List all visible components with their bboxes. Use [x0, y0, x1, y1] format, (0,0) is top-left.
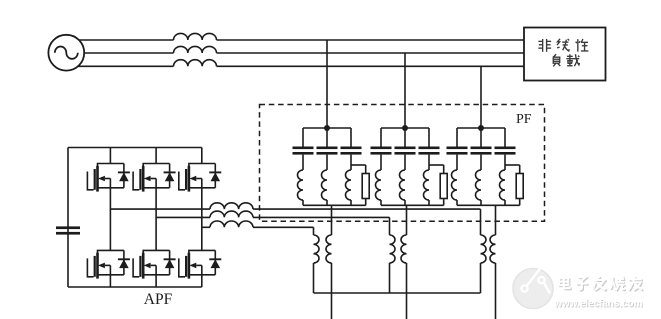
wire branch 1 L13 to bottom bus	[350, 200, 352, 205]
transistor Q2	[133, 164, 170, 192]
capacitor C33	[495, 147, 516, 155]
node branch 2 junction	[402, 125, 408, 131]
node branch 1 junction	[324, 125, 330, 131]
transformer T2 primary winding	[390, 235, 396, 263]
wire leg 2 lower source	[155, 275, 157, 287]
wire phase A (inductor to load)	[217, 39, 525, 41]
label char 线	[557, 39, 569, 51]
wire branch 1 L12 to bottom bus	[326, 200, 328, 205]
inductor Lfc	[210, 221, 253, 227]
wire branch 2 stem 2	[404, 128, 406, 147]
capacitor C13	[341, 147, 362, 155]
label char 非	[538, 39, 551, 52]
wire branch 2 below C21	[380, 155, 382, 170]
wire branch 2 split to resistor	[429, 164, 444, 166]
capacitor C22	[395, 147, 416, 155]
svg-text:APF: APF	[144, 291, 173, 308]
transformer T2 secondary winding	[401, 235, 407, 263]
transformer T3 primary winding	[481, 235, 486, 263]
watermark url	[554, 299, 644, 311]
inductor Lfa	[210, 203, 253, 209]
wire branch 1 descent to transformer	[331, 205, 333, 235]
wire branch 1 tap from phase	[326, 40, 328, 128]
wire T3 secondary down	[495, 263, 497, 319]
wire branch 1 below C11	[302, 155, 304, 170]
wire branch 1 top bus	[303, 127, 351, 129]
transistor Q5	[133, 250, 170, 278]
wire resistor R1 bottom lead	[365, 199, 367, 206]
wire APF feed to T1 primary	[313, 227, 315, 235]
nonlinear load box	[524, 28, 606, 81]
wire phase B (source to inductor)	[84, 52, 173, 54]
inductor L31	[452, 170, 458, 200]
wire T2 primary to bottom bus	[389, 263, 391, 293]
diode D3	[209, 164, 221, 188]
wire branch 1 stem 2	[326, 128, 328, 147]
wire branch 3 stem 3	[504, 128, 506, 147]
wire leg 2 middle	[155, 188, 157, 251]
wire APF output phase a (leg to coil)	[110, 208, 210, 210]
wire T2 secondary down	[406, 263, 408, 319]
wire branch 3 L33 to bottom bus	[504, 200, 506, 205]
inductor L22	[400, 170, 405, 200]
resistor R3	[516, 174, 523, 199]
capacitor C31	[447, 147, 468, 155]
wire branch 3 below C31	[456, 155, 458, 170]
wire branch 3 below C33	[504, 155, 506, 170]
wire branch 3 L32 to bottom bus	[480, 200, 482, 205]
wire branch 1 stem 3	[350, 128, 352, 147]
wire resistor R3 top lead	[519, 165, 521, 174]
wire phase C (source to inductor)	[78, 65, 174, 67]
wire leg 1 middle	[109, 188, 111, 251]
wire branch 3 below C32	[480, 155, 482, 170]
capacitor C12	[317, 147, 338, 155]
transformer T1 secondary winding	[326, 235, 332, 263]
wire leg 1 upper drain	[109, 148, 111, 164]
svg-text:PF: PF	[516, 112, 532, 127]
wire branch 2 L21 to bottom bus	[380, 200, 382, 205]
watermark char 发	[593, 276, 607, 291]
inductor Lsa	[174, 33, 217, 40]
label char 负	[553, 54, 560, 66]
wire resistor R1 top lead	[365, 165, 367, 174]
wire branch 1 below C13	[350, 155, 352, 170]
wire branch 3 stem 2	[480, 128, 482, 147]
wire branch 1 split to resistor	[351, 164, 366, 166]
diode D2	[164, 164, 176, 188]
wire branch 2 L22 to bottom bus	[404, 200, 406, 205]
PF passive filter boundary	[260, 105, 545, 222]
watermark char 友	[628, 276, 643, 291]
wire APF output phase a (coil to transformer)	[253, 208, 481, 210]
wire transformer primary common bus	[314, 292, 481, 294]
wire branch 3 descent to transformer	[495, 205, 497, 235]
wire resistor R3 bottom lead	[519, 199, 521, 206]
transformer T1 primary winding	[314, 235, 320, 263]
wire resistor R2 top lead	[443, 165, 445, 174]
inductor Lsb	[174, 46, 217, 53]
wire branch 3 split to resistor	[505, 164, 520, 166]
wire branch 3 L31 to bottom bus	[456, 200, 458, 205]
inductor L11	[298, 170, 304, 200]
diode D1	[118, 164, 130, 188]
capacitor C21	[371, 147, 392, 155]
inductor L21	[376, 170, 382, 200]
watermark logo trace	[521, 264, 550, 294]
inductor L23	[424, 170, 430, 200]
wire leg 3 lower source	[201, 275, 203, 287]
wire leg 1 lower source	[109, 275, 111, 287]
wire branch 2 stem 1	[380, 128, 382, 147]
wire APF dc top rail	[68, 147, 202, 149]
wire branch 1 below C12	[326, 155, 328, 170]
wire leg 3 middle	[201, 188, 203, 251]
wire leg 2 upper drain	[155, 148, 157, 164]
wire branch 3 stem 1	[456, 128, 458, 147]
inductor L13	[346, 170, 352, 200]
wire branch 2 top bus	[381, 127, 429, 129]
node branch 3 junction	[478, 125, 484, 131]
capacitor Cdc	[56, 226, 80, 234]
wire APF feed to T3 primary	[480, 209, 482, 235]
wire branch 3 bottom bus	[457, 204, 520, 206]
watermark char 电	[559, 276, 571, 289]
label APF	[144, 291, 173, 308]
wire APF feed to T2 primary	[389, 217, 391, 235]
svg-text:www.elecfans.com: www.elecfans.com	[554, 299, 643, 310]
transistor Q6	[179, 250, 216, 278]
transistor Q1	[87, 164, 124, 192]
diode D6	[209, 250, 221, 274]
inductor L33	[500, 170, 506, 200]
capacitor C11	[293, 147, 314, 155]
label PF	[516, 112, 532, 127]
diode D5	[164, 250, 176, 274]
wire branch 2 tap from phase	[404, 53, 406, 128]
resistor R2	[440, 174, 447, 199]
wire branch 2 descent to transformer	[406, 205, 408, 235]
wire APF dc bottom rail	[68, 286, 202, 288]
inductor L32	[476, 170, 481, 200]
capacitor C23	[419, 147, 440, 155]
wire APF dc left rail	[67, 148, 69, 288]
wire branch 2 below C23	[428, 155, 430, 170]
wire branch 1 bottom bus	[303, 204, 366, 206]
inductor Lfb	[210, 211, 253, 217]
capacitor C32	[471, 147, 492, 155]
wire phase C (inductor to load)	[217, 65, 525, 67]
transformer T3 secondary winding	[490, 235, 496, 263]
wire phase A (source to inductor)	[79, 39, 174, 41]
wire T1 secondary down	[331, 263, 333, 319]
wire branch 1 L11 to bottom bus	[302, 200, 304, 205]
wire branch 2 L23 to bottom bus	[428, 200, 430, 205]
wire APF output phase c (coil to transformer)	[253, 226, 314, 228]
transistor Q4	[87, 250, 124, 278]
watermark logo circle	[513, 269, 553, 309]
label char 性	[576, 39, 589, 52]
wire resistor R2 bottom lead	[443, 199, 445, 206]
wire branch 2 bottom bus	[381, 204, 444, 206]
wire branch 2 stem 3	[428, 128, 430, 147]
wire leg 3 upper drain	[201, 148, 203, 164]
wire branch 1 stem 1	[302, 128, 304, 147]
watermark char 烧	[610, 276, 626, 291]
wire T3 primary to bottom bus	[480, 263, 482, 293]
watermark char 子	[576, 277, 589, 291]
ac source V1	[48, 35, 84, 71]
label char 载	[566, 54, 579, 66]
inductor L12	[322, 170, 328, 200]
wire branch 3 tap from phase	[480, 66, 482, 128]
wire phase B (inductor to load)	[217, 52, 525, 54]
resistor R1	[362, 174, 369, 199]
wire APF output phase c (leg to coil)	[202, 226, 210, 228]
wire T1 primary to bottom bus	[313, 263, 315, 293]
wire APF output phase b (leg to coil)	[156, 216, 210, 218]
inductor Lsc	[174, 60, 217, 67]
wire branch 2 below C22	[404, 155, 406, 170]
transistor Q3	[179, 164, 216, 192]
diode D4	[118, 250, 130, 274]
wire branch 3 top bus	[457, 127, 505, 129]
wire APF output phase b (coil to transformer)	[253, 216, 390, 218]
